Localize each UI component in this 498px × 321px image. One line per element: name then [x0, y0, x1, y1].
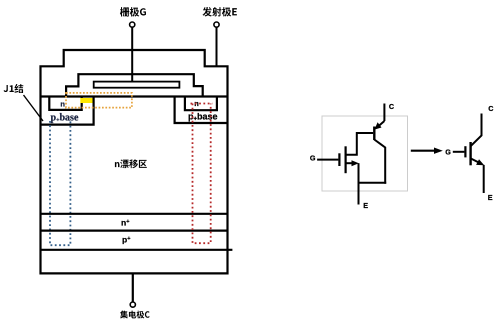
silicon surface line: [41, 95, 228, 97]
red dotted hole current path: [191, 104, 213, 244]
svg-text:n+: n+: [121, 218, 129, 228]
emitter terminal circle E: [214, 22, 219, 27]
svg-text:C: C: [389, 102, 394, 111]
right n+ source region: [185, 97, 217, 111]
gate electrode (polysilicon): [94, 82, 180, 88]
svg-text:E: E: [363, 201, 368, 210]
Q1 emitter diagonal with arrow into base: [378, 121, 385, 127]
right p+ base region: [175, 97, 227, 124]
svg-text:G: G: [445, 148, 451, 157]
Q1 collector diagonal: [374, 140, 385, 184]
svg-text:n: n: [60, 99, 65, 108]
collector metal top line: [41, 249, 233, 251]
transistor Q1 base bar: [373, 127, 375, 141]
svg-text:p+base: p+base: [51, 113, 79, 124]
J1 junction pointer line: [24, 95, 44, 121]
label collector terminal 集电极C: [120, 311, 150, 319]
orange dotted MOS-channel highlight box: [66, 93, 132, 108]
label n drift region: [115, 159, 147, 168]
IGBT gate bar: [464, 146, 466, 157]
label gate terminal 栅极G: [120, 7, 146, 17]
IGBT emitter diagonal with arrow: [471, 158, 479, 162]
svg-text:E: E: [488, 193, 493, 202]
wire emitter lead IGBT: [483, 165, 485, 193]
svg-text:p+: p+: [122, 234, 130, 244]
n+ buffer layer top line: [41, 213, 228, 215]
left n+ source region: [49, 97, 81, 110]
wire collector lead: [132, 273, 134, 302]
equivalent-circuit bounding box: [322, 116, 408, 191]
device outline with emitter metal cap: [41, 50, 228, 273]
label emitter terminal 发射极E: [203, 7, 237, 16]
yellow channel highlight: [80, 98, 94, 103]
arrow (equivalence): [411, 150, 436, 152]
wire M1 drain to Q1 base: [346, 133, 374, 155]
gate terminal circle G: [130, 22, 135, 27]
left p+ base region: [42, 97, 94, 125]
gate oxide outline: [66, 74, 203, 95]
svg-text:G: G: [310, 154, 316, 163]
MOSFET M1 gate bar: [338, 153, 340, 166]
wire gate lead M1: [317, 159, 338, 161]
wire gate lead IGBT: [453, 151, 465, 153]
label J1结: [4, 84, 24, 93]
IGBT body bar: [469, 142, 471, 165]
wire gate lead: [131, 27, 133, 82]
wire emitter lead: [216, 27, 218, 66]
IGBT collector diagonal and lead: [471, 114, 482, 147]
svg-text:C: C: [488, 104, 493, 113]
collector terminal circle C: [130, 302, 135, 307]
wire source down to emitter node: [358, 163, 360, 204]
wire emitter node to Q1 collector: [359, 182, 387, 184]
blue dotted electron current path: [50, 121, 70, 245]
MOSFET M1 channel bar: [345, 146, 347, 173]
p+ substrate top line: [41, 230, 228, 232]
wire M1 source with arrow: [346, 162, 356, 164]
wire C lead Q1: [383, 104, 385, 122]
